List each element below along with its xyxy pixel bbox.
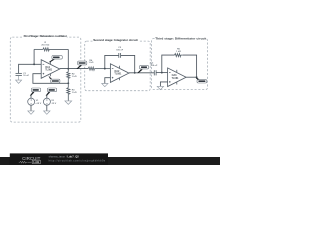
resistor R1 (feedback 20.0 kOhm): [34, 48, 68, 51]
svg-text:1 kΩ: 1 kΩ: [72, 76, 77, 78]
junction output node: [67, 68, 69, 70]
wire: OA1 output across to OA2 input: [60, 68, 88, 70]
svg-text:10 nF: 10 nF: [23, 75, 29, 77]
svg-text:100 nF: 100 nF: [150, 65, 158, 67]
CircuitLab logo: [19, 156, 41, 164]
svg-text:TL081: TL081: [172, 77, 180, 80]
ground at OA2 + input: [102, 84, 108, 87]
wire: OA3 output: [186, 76, 197, 78]
ground at OA3 + input: [157, 86, 163, 89]
svg-text:100 nF: 100 nF: [116, 50, 124, 52]
annotation box: Third stage Differentiator circuit: [152, 36, 208, 90]
svg-text:1 kΩ: 1 kΩ: [89, 62, 94, 64]
wire: R5 feedback left riser: [162, 55, 175, 73]
svg-text:First Stage: Relaxation oscill: First Stage: Relaxation oscillator: [24, 34, 68, 38]
wire: R5 right riser to output: [183, 55, 197, 77]
svg-text:http://circuitlab.com/c/xxjjmg: http://circuitlab.com/c/xxjjmgkbhkb9s: [49, 159, 106, 163]
svg-text:20.0 kΩ: 20.0 kΩ: [41, 44, 49, 46]
voltage source V1: [28, 95, 35, 111]
wire: C1 node to OA1 inverting input: [19, 63, 42, 65]
voltage source V2: [43, 95, 50, 111]
wire: OA1 + input loop to divider: [33, 74, 68, 84]
wire: C1 node drop: [18, 64, 20, 74]
junction at inverting node: [33, 63, 35, 65]
flag V1: [30, 88, 41, 96]
svg-text:TL081: TL081: [114, 73, 122, 76]
svg-text:+15 V: +15 V: [35, 103, 41, 105]
wire: C3 to OA3 inverting input: [156, 72, 168, 74]
op-amp OA3: [168, 68, 187, 87]
annotation box: Second stage Integrator circuit: [85, 38, 151, 91]
capacitor C3 plates: [154, 70, 156, 75]
ground under V1: [28, 111, 34, 114]
svg-text:1 kΩ: 1 kΩ: [176, 51, 181, 53]
svg-text:LAB: LAB: [33, 160, 39, 164]
flag V2: [46, 88, 57, 96]
ground under V2: [44, 111, 50, 114]
wire: R1 left drop to inverting node: [33, 49, 35, 64]
svg-text:1 kΩ: 1 kΩ: [72, 92, 77, 94]
op-amp OA2: [110, 64, 128, 83]
resistor R4 (integrator input): [88, 67, 110, 70]
wire: C2 feedback left riser: [105, 55, 119, 68]
svg-text:sharma_tarun / Lab7_Q2: sharma_tarun / Lab7_Q2: [49, 154, 80, 158]
flag stage2 output: [137, 65, 149, 73]
op-amp OA1: [41, 60, 60, 79]
wire: R1 right drop to output node: [67, 49, 69, 68]
ground under C1: [16, 76, 22, 84]
svg-text:Third stage: Differentiator ci: Third stage: Differentiator circuit: [155, 37, 206, 41]
svg-text:-15 V: -15 V: [51, 103, 57, 105]
svg-text:Second stage: Integrator circu: Second stage: Integrator circuit: [93, 38, 137, 42]
wire: OA3 + input to ground: [160, 82, 167, 87]
junction divider mid node: [67, 82, 69, 84]
resistor R2 (divider top): [67, 69, 70, 84]
wire: OA2 output to stage 3 C3: [129, 72, 154, 74]
junction OA2 output node: [134, 72, 136, 74]
annotation box: First Stage Relaxation oscillator: [10, 34, 81, 123]
wire: OA2 + input to ground: [105, 78, 111, 84]
junction OA3 inverting node: [161, 72, 163, 74]
flag OA1 V-: [48, 76, 60, 84]
footer plate: [10, 153, 108, 165]
resistor R3 (divider bottom): [67, 83, 70, 101]
svg-text:TL081: TL081: [45, 69, 53, 72]
junction OA2 inverting node: [104, 68, 106, 70]
capacitor C1 plates: [16, 73, 22, 75]
flag stage1 output: [76, 61, 86, 69]
resistor R5 (differentiator feedback): [175, 54, 183, 57]
flag stage3 output: [196, 77, 207, 83]
capacitor C2 plates: [119, 53, 121, 58]
flag OA1 V+: [49, 56, 63, 63]
junction OA3 output node: [196, 76, 198, 78]
wire: C2 feedback right riser: [121, 55, 135, 72]
footer strip full width: [0, 157, 220, 165]
ground under R3: [65, 101, 72, 105]
